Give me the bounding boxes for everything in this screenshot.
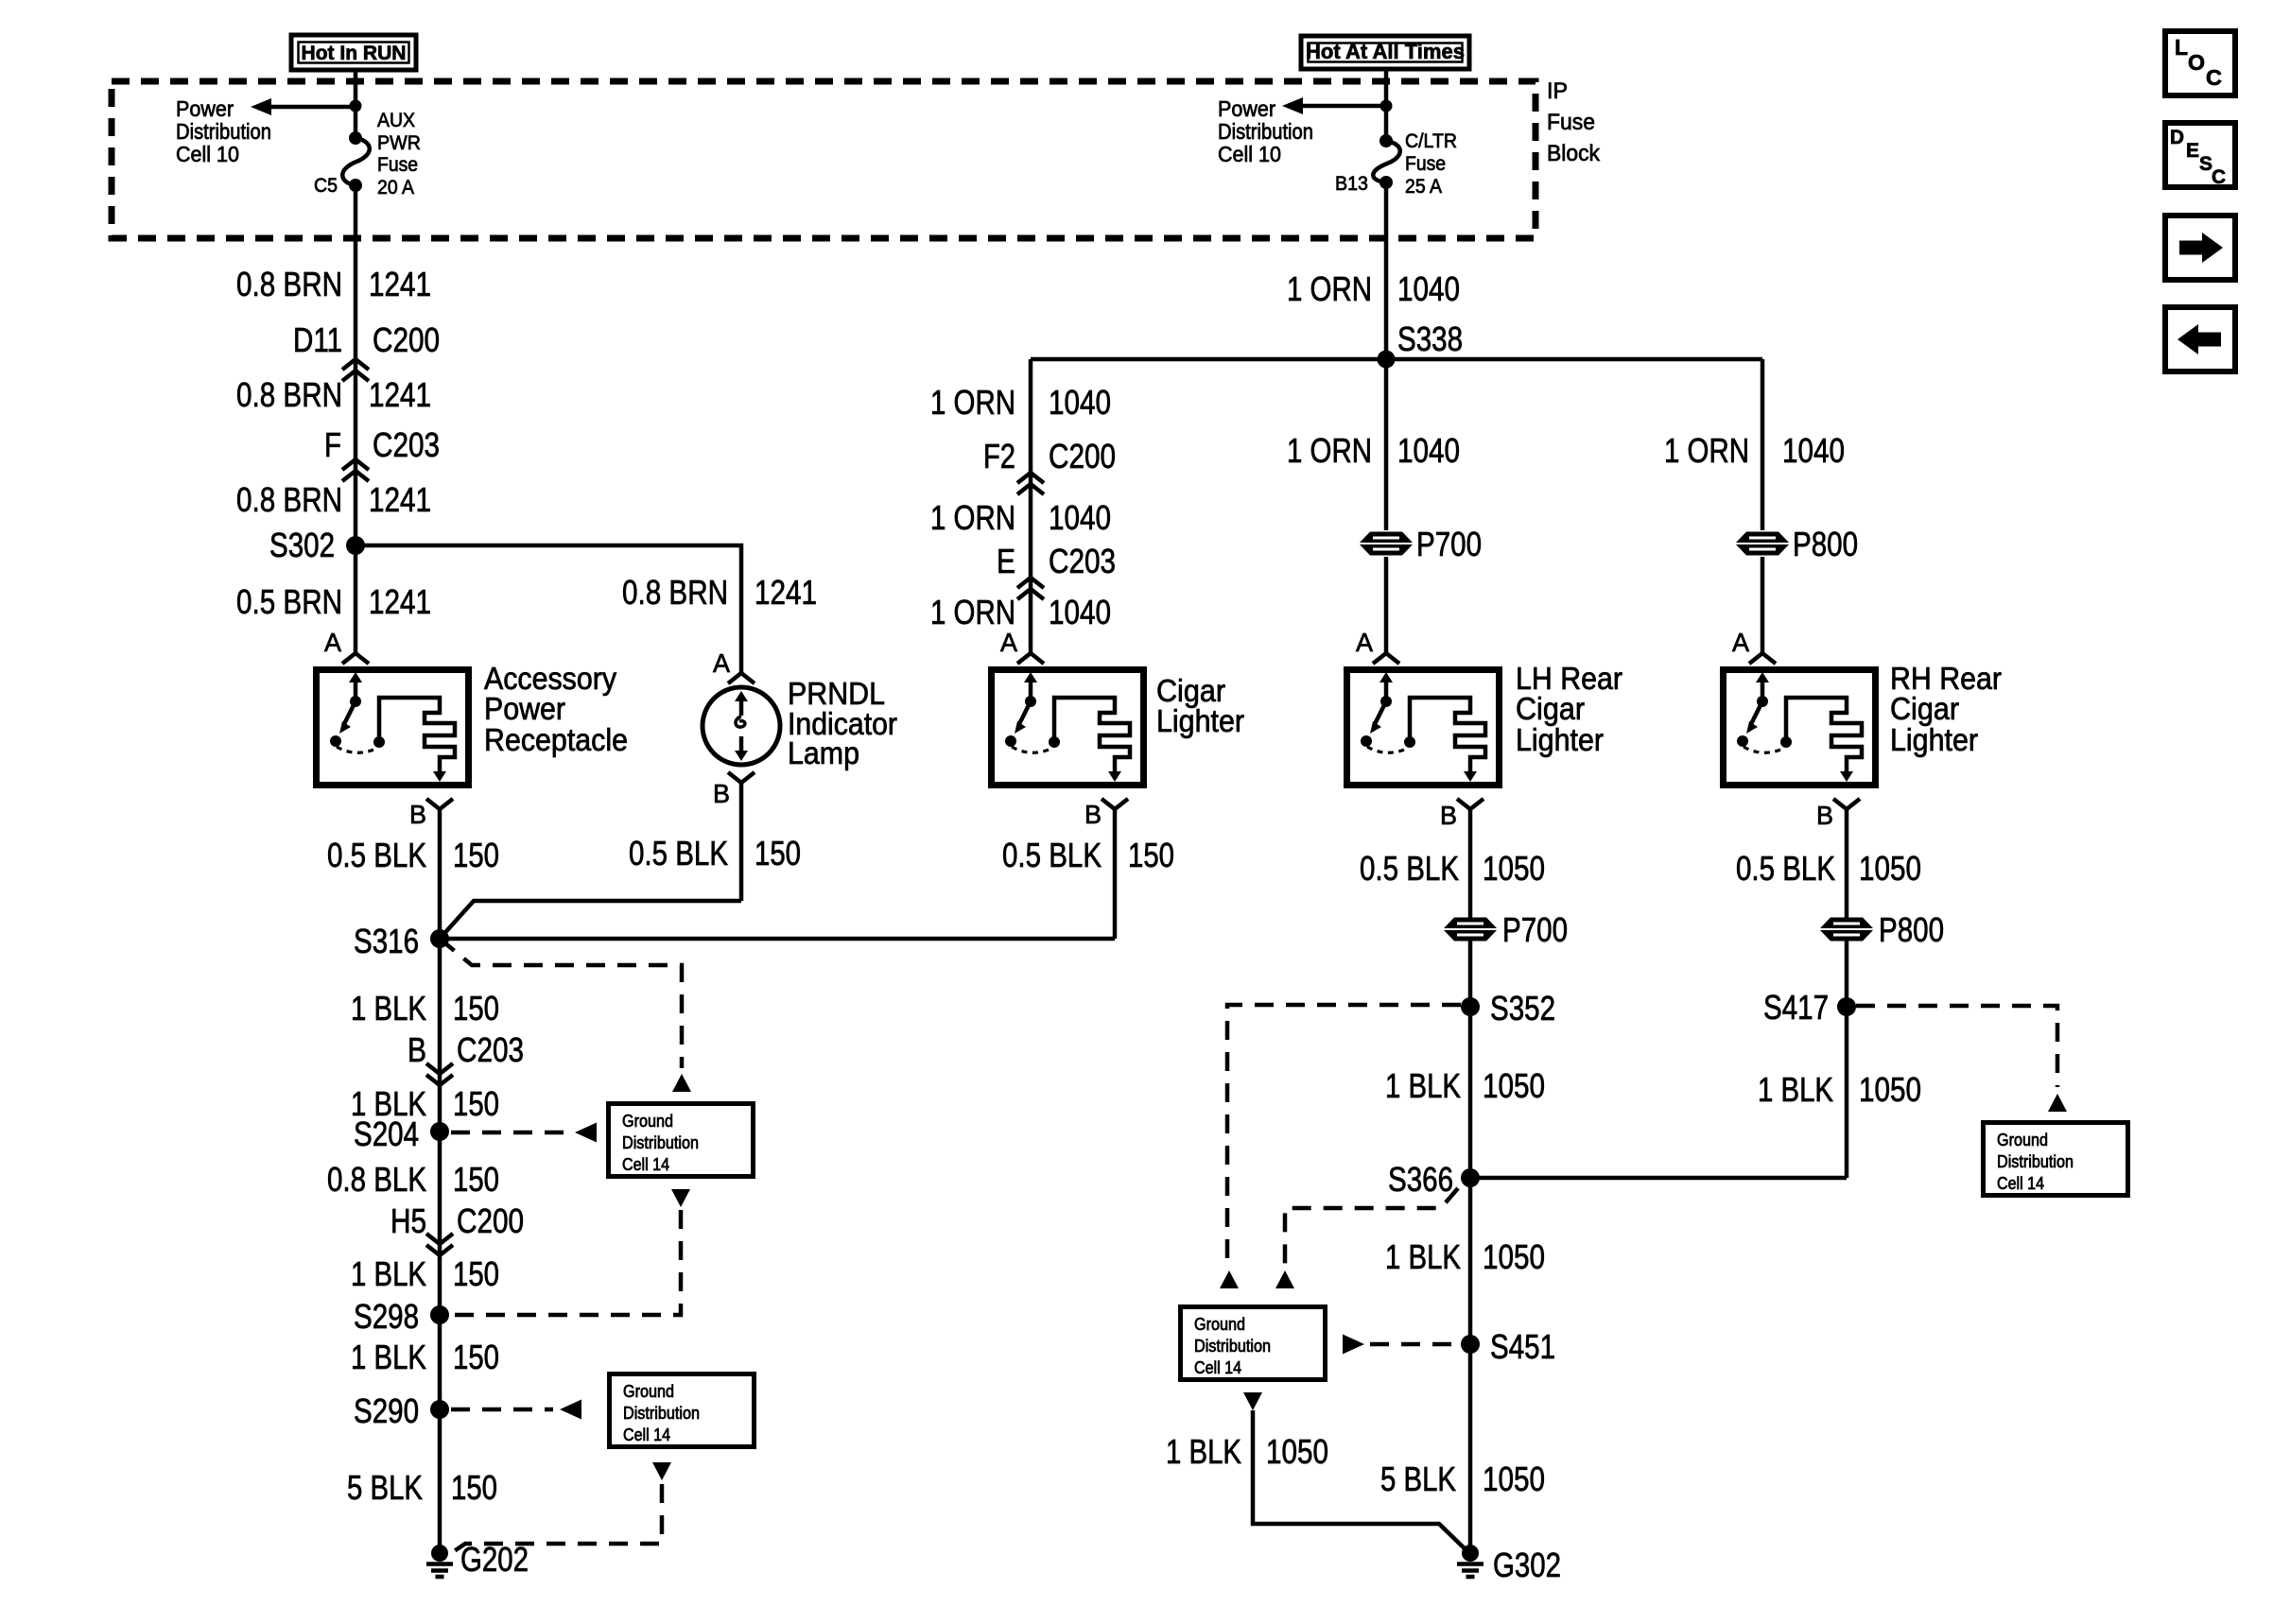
inline connector P800 upper xyxy=(1736,532,1789,544)
svg-text:AUX: AUX xyxy=(377,110,415,131)
svg-text:Lamp: Lamp xyxy=(788,735,859,770)
power distribution arrow left xyxy=(271,105,356,110)
svg-text:S366: S366 xyxy=(1388,1160,1453,1199)
svg-text:C203: C203 xyxy=(373,425,440,464)
pin B rh xyxy=(1833,799,1860,809)
svg-text:0.5 BRN: 0.5 BRN xyxy=(236,582,342,621)
svg-text:S417: S417 xyxy=(1763,988,1829,1027)
inline connector P700 upper xyxy=(1360,532,1413,544)
svg-text:Cigar: Cigar xyxy=(1516,691,1585,726)
svg-text:A: A xyxy=(1000,628,1017,657)
svg-text:C200: C200 xyxy=(457,1201,524,1240)
svg-text:B: B xyxy=(713,779,730,808)
svg-text:D11: D11 xyxy=(293,320,342,359)
svg-text:Receptacle: Receptacle xyxy=(484,722,628,757)
DESC icon box xyxy=(2165,123,2235,187)
svg-text:B: B xyxy=(1816,801,1833,830)
svg-text:A: A xyxy=(1356,628,1373,657)
connector chevrons C200 cigar xyxy=(1017,473,1044,483)
svg-text:C203: C203 xyxy=(1049,542,1116,580)
wire Hot In RUN to fuse xyxy=(354,70,358,138)
svg-text:1 ORN: 1 ORN xyxy=(930,498,1015,537)
svg-text:Distribution: Distribution xyxy=(1194,1337,1271,1356)
svg-text:C200: C200 xyxy=(373,320,440,359)
svg-text:Power: Power xyxy=(1218,96,1275,121)
inline connector P800 lower xyxy=(1820,918,1873,929)
svg-text:Fuse: Fuse xyxy=(1405,153,1446,175)
fuse AUX PWR 20A xyxy=(349,131,362,145)
svg-text:0.8 BRN: 0.8 BRN xyxy=(236,375,342,414)
svg-text:150: 150 xyxy=(453,1254,499,1293)
svg-text:1050: 1050 xyxy=(1859,1070,1921,1109)
svg-text:0.8 BRN: 0.8 BRN xyxy=(236,480,342,519)
svg-text:P700: P700 xyxy=(1416,525,1482,563)
svg-text:Ground: Ground xyxy=(1997,1131,2048,1149)
svg-text:A: A xyxy=(713,648,730,678)
RH rear cigar lighter box xyxy=(1724,670,1876,786)
svg-text:1050: 1050 xyxy=(1859,849,1921,888)
svg-text:Fuse: Fuse xyxy=(377,154,418,176)
wire P800 to A rh xyxy=(1761,557,1765,652)
svg-text:1050: 1050 xyxy=(1483,1237,1545,1276)
svg-text:1040: 1040 xyxy=(1397,431,1460,470)
svg-text:Distribution: Distribution xyxy=(623,1404,700,1423)
right arrow icon box xyxy=(2165,216,2235,280)
svg-text:B: B xyxy=(1440,801,1457,830)
svg-text:1241: 1241 xyxy=(369,582,431,621)
svg-text:150: 150 xyxy=(453,836,499,874)
dashed ground cell 1 to S298 xyxy=(452,1210,681,1315)
svg-text:Cell 14: Cell 14 xyxy=(623,1425,670,1444)
dashed S290 to ground cell 2 xyxy=(451,1408,553,1412)
ground distribution cell 14 box 2 xyxy=(610,1374,755,1447)
ground distribution cell 14 box 3 xyxy=(1181,1307,1326,1380)
svg-text:1040: 1040 xyxy=(1049,593,1111,631)
svg-text:Block: Block xyxy=(1547,141,1601,166)
arrow out ground cell 2 bottom xyxy=(652,1462,671,1480)
pin B lh xyxy=(1457,799,1484,809)
svg-text:150: 150 xyxy=(1128,836,1174,874)
svg-text:C/LTR: C/LTR xyxy=(1405,130,1457,152)
svg-text:S338: S338 xyxy=(1397,320,1463,358)
pin B prndl xyxy=(728,772,755,783)
splice S366 xyxy=(1461,1168,1480,1187)
svg-text:B13: B13 xyxy=(1335,173,1368,195)
svg-text:1241: 1241 xyxy=(369,375,431,414)
svg-text:1 ORN: 1 ORN xyxy=(1664,431,1749,470)
svg-text:C200: C200 xyxy=(1049,437,1116,475)
svg-text:C: C xyxy=(2206,65,2222,90)
ground distribution cell 14 box 1 xyxy=(609,1104,754,1177)
PRNDL indicator lamp xyxy=(703,687,780,765)
wire lh B down upper xyxy=(1468,809,1473,918)
IP fuse block dashed outline xyxy=(112,81,1536,238)
accessory power receptacle box xyxy=(317,670,469,786)
svg-text:0.8 BRN: 0.8 BRN xyxy=(236,265,342,303)
wire prndl B down xyxy=(739,783,744,901)
wire S316 to PRNDL B xyxy=(440,901,741,939)
svg-text:150: 150 xyxy=(755,834,801,872)
splice S338 xyxy=(1378,351,1396,369)
svg-text:1 BLK: 1 BLK xyxy=(1385,1237,1461,1276)
svg-text:150: 150 xyxy=(451,1468,497,1507)
splice S451 xyxy=(1461,1335,1480,1354)
svg-text:Lighter: Lighter xyxy=(1516,722,1604,757)
svg-text:1 BLK: 1 BLK xyxy=(351,1338,426,1376)
dashed S316 to ground cell xyxy=(440,939,682,1068)
svg-text:O: O xyxy=(2188,50,2205,75)
wire S316 to cigar B xyxy=(440,937,1115,942)
svg-text:150: 150 xyxy=(453,1084,499,1123)
svg-text:S204: S204 xyxy=(354,1114,419,1153)
svg-text:Ground: Ground xyxy=(622,1112,673,1131)
svg-text:Lighter: Lighter xyxy=(1890,722,1978,757)
splice S352 xyxy=(1461,997,1480,1016)
svg-text:Cell 14: Cell 14 xyxy=(1997,1174,2044,1193)
svg-text:1050: 1050 xyxy=(1483,1066,1545,1105)
svg-text:C5: C5 xyxy=(314,175,338,197)
svg-text:Cigar: Cigar xyxy=(1890,691,1959,726)
svg-text:1040: 1040 xyxy=(1049,383,1111,422)
connector chevrons C203 lower xyxy=(426,1063,453,1074)
svg-text:S298: S298 xyxy=(354,1297,419,1336)
svg-text:Power: Power xyxy=(484,691,565,726)
svg-text:Ground: Ground xyxy=(1194,1315,1245,1334)
svg-text:0.5 BLK: 0.5 BLK xyxy=(1360,849,1459,888)
svg-text:F: F xyxy=(324,425,341,464)
svg-text:20 A: 20 A xyxy=(377,177,414,199)
svg-text:Fuse: Fuse xyxy=(1547,110,1595,135)
svg-text:L: L xyxy=(2175,35,2188,60)
svg-text:F2: F2 xyxy=(983,437,1015,475)
svg-text:150: 150 xyxy=(453,1160,499,1199)
wire Hot At All Times to fuse xyxy=(1384,69,1389,141)
svg-text:D: D xyxy=(2170,127,2184,148)
svg-text:1 BLK: 1 BLK xyxy=(351,989,426,1028)
svg-text:Cell 10: Cell 10 xyxy=(176,142,239,166)
svg-text:IP: IP xyxy=(1547,78,1568,104)
svg-text:PWR: PWR xyxy=(377,132,421,154)
svg-text:Distribution: Distribution xyxy=(176,119,271,144)
svg-text:0.5 BLK: 0.5 BLK xyxy=(327,836,426,874)
arrow out ground cell 1 bottom xyxy=(671,1189,690,1207)
dashed S417 to ground cell 4 xyxy=(1856,1006,2057,1087)
svg-text:A: A xyxy=(1732,628,1749,657)
svg-text:1050: 1050 xyxy=(1483,1460,1545,1498)
arrow into ground cell 4 xyxy=(2048,1094,2067,1112)
svg-text:A: A xyxy=(324,628,341,657)
svg-text:Lighter: Lighter xyxy=(1156,703,1244,738)
svg-text:Distribution: Distribution xyxy=(1218,119,1313,144)
svg-text:C: C xyxy=(2212,166,2226,188)
splice S302 xyxy=(346,536,365,555)
svg-text:1 BLK: 1 BLK xyxy=(351,1254,426,1293)
svg-text:Distribution: Distribution xyxy=(1997,1152,2073,1171)
connector chevrons C200 left xyxy=(342,359,369,370)
ground G302 xyxy=(1462,1545,1479,1562)
svg-text:S: S xyxy=(2199,153,2212,175)
splice S298 xyxy=(430,1305,449,1324)
junction node left xyxy=(350,100,362,112)
svg-text:1 ORN: 1 ORN xyxy=(930,593,1015,631)
LOC icon box xyxy=(2165,31,2235,95)
wire cigar B down to S316 line xyxy=(1113,809,1118,939)
svg-text:S352: S352 xyxy=(1490,989,1555,1028)
svg-text:150: 150 xyxy=(453,989,499,1028)
svg-text:1 BLK: 1 BLK xyxy=(1166,1432,1241,1471)
wire rh B down upper xyxy=(1845,809,1849,918)
svg-text:1 ORN: 1 ORN xyxy=(1287,269,1372,308)
wire ground cell 3 to G302 xyxy=(1253,1410,1470,1554)
svg-text:Hot At All Times: Hot At All Times xyxy=(1306,40,1465,63)
ground G202 xyxy=(431,1545,448,1562)
svg-text:1040: 1040 xyxy=(1782,431,1845,470)
svg-text:Cell 10: Cell 10 xyxy=(1218,142,1281,166)
svg-text:H5: H5 xyxy=(390,1201,426,1240)
svg-text:0.8 BLK: 0.8 BLK xyxy=(327,1160,426,1199)
wire accessory B down to G202 xyxy=(438,809,442,1553)
LH rear cigar lighter box xyxy=(1347,670,1500,786)
svg-text:5 BLK: 5 BLK xyxy=(347,1468,423,1507)
arrow into ground cell 3 left xyxy=(1220,1270,1239,1288)
pin B cigar xyxy=(1102,799,1128,809)
junction node right xyxy=(1380,100,1393,112)
Hot At All Times box xyxy=(1301,36,1469,69)
wire S338 branch to RH xyxy=(1761,359,1765,530)
svg-text:5 BLK: 5 BLK xyxy=(1380,1460,1456,1498)
wire S338 branch to cigar xyxy=(1029,359,1033,652)
svg-text:1050: 1050 xyxy=(1483,849,1545,888)
fuse C/LTR 25A xyxy=(1379,134,1393,147)
wire S302 branch to PRNDL xyxy=(356,545,741,673)
wire P700 to A lh xyxy=(1384,557,1389,652)
svg-text:P700: P700 xyxy=(1502,910,1568,949)
pin B accessory xyxy=(426,799,453,809)
wire fuse down left col xyxy=(354,185,358,652)
svg-text:Distribution: Distribution xyxy=(622,1133,699,1152)
svg-text:C203: C203 xyxy=(457,1030,524,1069)
splice S417 xyxy=(1837,997,1856,1016)
svg-text:1040: 1040 xyxy=(1049,498,1111,537)
svg-text:1 BLK: 1 BLK xyxy=(1758,1070,1833,1109)
arrow out ground cell 3 to S451 xyxy=(1343,1335,1364,1355)
svg-text:B: B xyxy=(1084,800,1102,829)
power distribution arrow right xyxy=(1303,104,1386,109)
svg-text:Ground: Ground xyxy=(623,1382,674,1401)
svg-text:B: B xyxy=(408,1030,426,1069)
arrow out ground cell 3 bottom xyxy=(1243,1392,1262,1410)
svg-text:S302: S302 xyxy=(269,526,335,564)
left arrow icon box xyxy=(2165,307,2235,371)
svg-text:G302: G302 xyxy=(1493,1546,1561,1584)
ground distribution cell 14 box 4 xyxy=(1984,1123,2128,1196)
inline connector P700 lower xyxy=(1444,918,1497,929)
svg-text:1040: 1040 xyxy=(1397,269,1460,308)
svg-text:0.5 BLK: 0.5 BLK xyxy=(629,834,728,872)
svg-text:Power: Power xyxy=(176,96,234,121)
connector chevrons C203 cigar xyxy=(1017,578,1044,588)
wire lh B down to G302 xyxy=(1468,941,1473,1553)
svg-text:1241: 1241 xyxy=(755,573,817,612)
Hot In RUN box xyxy=(291,35,416,70)
cigar lighter box xyxy=(992,670,1144,786)
connector chevrons C200 lower xyxy=(426,1234,453,1244)
svg-text:1241: 1241 xyxy=(369,480,431,519)
svg-text:P800: P800 xyxy=(1879,910,1944,949)
svg-text:Cell 14: Cell 14 xyxy=(1194,1358,1241,1377)
svg-text:Cell 14: Cell 14 xyxy=(622,1155,669,1174)
svg-text:B: B xyxy=(409,800,426,829)
connector chevrons C203 left xyxy=(342,459,369,470)
svg-text:0.5 BLK: 0.5 BLK xyxy=(1736,849,1835,888)
svg-text:0.5 BLK: 0.5 BLK xyxy=(1002,836,1102,874)
dashed S352 to ground cell 3 xyxy=(1227,1005,1461,1265)
wire rh B down to S366 line xyxy=(1845,941,1849,1178)
svg-text:P800: P800 xyxy=(1793,525,1858,563)
svg-text:S451: S451 xyxy=(1490,1327,1555,1366)
wire S366 to RH branch xyxy=(1470,1176,1847,1181)
svg-text:1 ORN: 1 ORN xyxy=(1287,431,1372,470)
splice S316 xyxy=(430,929,449,948)
svg-text:S316: S316 xyxy=(354,922,419,960)
svg-text:25 A: 25 A xyxy=(1405,176,1442,198)
svg-text:S290: S290 xyxy=(354,1391,419,1430)
svg-text:E: E xyxy=(997,542,1015,580)
svg-text:Hot In RUN: Hot In RUN xyxy=(302,43,407,64)
splice S290 xyxy=(430,1400,449,1419)
dashed ground cell 2 to G202 xyxy=(444,1484,662,1558)
svg-text:1 BLK: 1 BLK xyxy=(1385,1066,1461,1105)
dashed S366 to ground cell 3 xyxy=(1285,1188,1458,1265)
svg-text:1050: 1050 xyxy=(1266,1432,1328,1471)
arrow into ground cell 1 top xyxy=(672,1074,691,1092)
svg-text:E: E xyxy=(2186,140,2199,162)
arrow into ground cell 3 right xyxy=(1275,1270,1294,1288)
svg-text:1 ORN: 1 ORN xyxy=(930,383,1015,422)
dashed S204 to ground cell 1 xyxy=(451,1131,567,1135)
svg-text:0.8 BRN: 0.8 BRN xyxy=(622,573,728,612)
svg-text:1241: 1241 xyxy=(369,265,431,303)
wire S338 horizontal xyxy=(1031,357,1762,362)
splice S204 xyxy=(430,1122,449,1141)
wire fuse down to S338 xyxy=(1384,185,1389,530)
svg-text:150: 150 xyxy=(453,1338,499,1376)
